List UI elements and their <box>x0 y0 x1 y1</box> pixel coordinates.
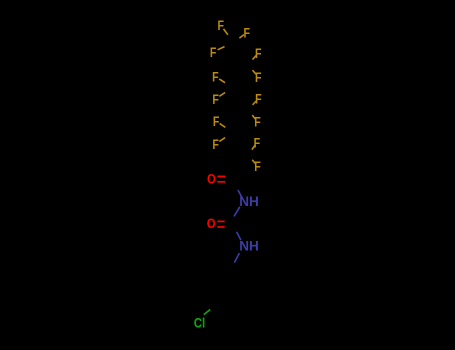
svg-text:F: F <box>212 91 219 107</box>
wire C-F3 bond <box>218 47 225 50</box>
svg-text:F: F <box>244 24 251 40</box>
svg-text:Cl: Cl <box>194 315 206 331</box>
svg-text:F: F <box>212 136 219 152</box>
wire C7-N1 bond <box>238 190 242 197</box>
wire C-F1 bond <box>224 29 228 35</box>
wire C-F12 bond <box>252 145 255 149</box>
svg-text:F: F <box>212 68 219 84</box>
svg-text:F: F <box>210 44 217 60</box>
wire N2-C9 bond <box>234 253 239 263</box>
wire C7=O1 double bond <box>217 175 225 177</box>
svg-text:F: F <box>255 45 262 61</box>
svg-text:F: F <box>255 91 262 107</box>
svg-text:F: F <box>254 114 261 130</box>
wire C-F9 bond <box>220 124 226 128</box>
svg-text:NH: NH <box>239 238 259 254</box>
svg-text:F: F <box>254 135 261 151</box>
wire C-F10 bond <box>252 115 255 119</box>
wire C8=O2 double bond <box>217 220 224 222</box>
svg-text:F: F <box>255 69 262 85</box>
wire Cring-Cl bond <box>204 310 210 315</box>
wire C8-N2 bond <box>237 232 241 240</box>
wire C-F6 bond <box>253 70 257 74</box>
wire C-F13 bond <box>252 160 255 164</box>
wire N1-C8 bond <box>234 207 240 217</box>
wire C-F7 bond <box>219 93 225 97</box>
wire C-F5 bond <box>219 79 225 83</box>
wire C-F8 bond <box>253 101 257 105</box>
svg-text:F: F <box>254 158 261 174</box>
wire C-F4 bond <box>253 56 257 60</box>
svg-text:F: F <box>217 17 224 33</box>
wire C-F11 bond <box>219 138 225 142</box>
svg-text:O: O <box>207 170 216 186</box>
svg-text:O: O <box>207 215 216 231</box>
svg-text:F: F <box>213 113 220 129</box>
wire C-F2 bond <box>239 35 244 39</box>
svg-text:NH: NH <box>239 193 259 209</box>
